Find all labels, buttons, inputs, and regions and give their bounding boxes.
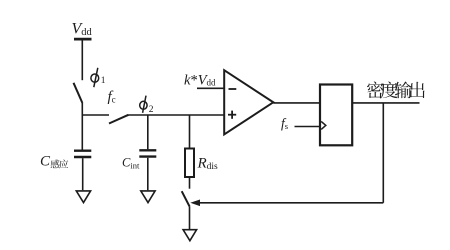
wire R_dis to discharge switch — [189, 177, 191, 189]
wire junction down to capacitor C_int — [147, 115, 149, 149]
ground under C_sense — [76, 191, 90, 203]
wire k*Vdd to comparator - input — [197, 87, 224, 89]
power rail Vdd label — [72, 21, 93, 39]
switch phi1 label: ellipse of phi — [91, 74, 99, 82]
switch phi2 label: subscript 2 — [149, 105, 154, 115]
wire C_sense to ground — [82, 158, 84, 190]
feedback arrowhead — [190, 200, 200, 207]
svg-text:2: 2 — [149, 105, 154, 115]
switch phi2 label: ellipse of phi — [140, 101, 147, 109]
svg-text:1: 1 — [101, 76, 106, 86]
feedback wire horizontal — [200, 202, 384, 204]
switch phi2 label: slash of phi — [143, 96, 146, 113]
latch body — [320, 85, 352, 146]
resistor R_dis body — [185, 149, 194, 178]
discharge switch lever — [182, 191, 190, 206]
op-amp comparator body — [224, 70, 273, 134]
ground under discharge switch — [183, 230, 197, 241]
feedback wire vertical — [382, 103, 384, 203]
wire discharge switch to ground — [189, 207, 191, 230]
switch phi1 label: slash of phi — [94, 68, 98, 87]
wire fs to latch clock pin — [295, 126, 320, 128]
capacitor C_int label — [122, 156, 140, 171]
resistor R_dis label — [197, 156, 219, 173]
capacitor C_int bottom plate — [139, 155, 156, 157]
wire phi2 to comparator + input — [129, 114, 225, 116]
ground under C_int — [141, 191, 155, 203]
svg-text:C: C — [40, 154, 51, 170]
switch phi1 label: subscript 1 — [101, 76, 106, 86]
power rail Vdd bar — [74, 38, 92, 41]
wire Vdd bar to switch phi1 — [81, 39, 83, 80]
latch clock input triangle — [321, 121, 326, 129]
wire phi1 to node A — [81, 103, 83, 116]
output label (density output) — [367, 81, 425, 98]
switch phi2 lever — [109, 115, 129, 124]
wire comparator output to latch — [273, 102, 319, 104]
clock fs label — [281, 115, 288, 131]
wire latch output — [353, 102, 420, 104]
wire node A down to capacitor C_sense — [81, 115, 83, 150]
capacitor C_sense label — [40, 154, 68, 170]
node fc label — [108, 89, 116, 105]
capacitor C_sense bottom plate — [74, 156, 91, 158]
wire junction down to resistor R_dis — [189, 115, 191, 148]
reference k*Vdd label — [184, 72, 216, 88]
node A wire to switch phi2 — [82, 114, 110, 116]
wire C_int to ground — [147, 158, 149, 190]
comparator - input sign — [229, 88, 237, 90]
switch phi1 lever — [74, 83, 83, 103]
capacitor C_sense top plate — [74, 149, 91, 151]
capacitor C_int top plate — [139, 149, 156, 151]
comparator + input sign — [228, 114, 236, 116]
